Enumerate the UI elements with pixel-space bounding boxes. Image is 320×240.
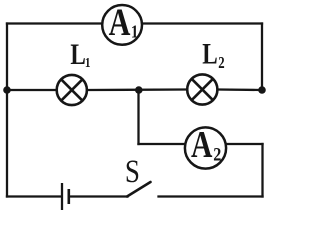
ammeter A1 <box>102 0 142 44</box>
svg-text:2: 2 <box>218 55 224 73</box>
wire: right vertical upper <box>261 24 263 91</box>
wire: main horizontal right of L2 <box>218 88 262 91</box>
wire: left vertical <box>6 24 8 197</box>
svg-text:1: 1 <box>85 55 91 70</box>
svg-text:L: L <box>70 37 85 70</box>
switch S arm <box>127 182 151 197</box>
lamp L2 <box>187 74 217 104</box>
lamp L1 <box>57 75 87 105</box>
wire: bottom between battery and switch <box>70 195 128 197</box>
wire: A2 row left segment <box>139 143 186 145</box>
svg-text:1: 1 <box>131 21 138 41</box>
wire: main horizontal between L1 and L2 <box>87 88 187 91</box>
svg-text:2: 2 <box>213 143 221 165</box>
wire: main horizontal left of L1 <box>7 89 57 91</box>
wire: top branch right segment <box>143 22 262 24</box>
label L1 <box>70 37 90 70</box>
wire: right vertical lower <box>261 144 263 197</box>
ammeter A2 <box>185 125 226 169</box>
wire: branch vertical from node to A2 row <box>137 90 139 144</box>
label L2 <box>202 37 224 73</box>
svg-text:S: S <box>125 153 140 190</box>
battery: short thick plate <box>68 189 71 204</box>
battery: long plate <box>61 183 63 210</box>
node: left junction <box>3 86 11 94</box>
wire: bottom left segment to battery <box>7 195 60 197</box>
svg-text:A: A <box>191 125 213 166</box>
node: middle junction <box>135 86 143 94</box>
wire: bottom right of switch <box>159 195 263 197</box>
wire: top branch left segment <box>7 22 102 24</box>
node: right junction <box>258 86 266 94</box>
svg-text:A: A <box>109 0 131 43</box>
wire: A2 row right segment <box>226 143 262 145</box>
svg-text:L: L <box>202 37 217 70</box>
